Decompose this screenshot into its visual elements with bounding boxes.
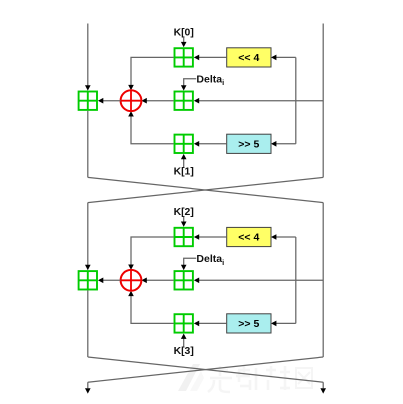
- arrowhead into K[1] adder: [194, 141, 199, 147]
- shift-right box ">> 5" round 1: [227, 134, 271, 153]
- wire v-branch to Delta adder round 1: [198, 100, 323, 102]
- wire Delta_i into adder round 1: [184, 79, 197, 86]
- adder K[2] (boxplus): [175, 228, 193, 246]
- watermark text 先知社区: [208, 366, 312, 392]
- wire K[3] stub: [183, 338, 185, 347]
- wire branch to shift-right round 1: [276, 143, 296, 145]
- svg-text:<< 4: << 4: [238, 232, 259, 244]
- svg-text:Deltai: Deltai: [196, 253, 224, 267]
- wire shift-left to K[0] adder: [198, 56, 226, 58]
- wire branch to shift-right round 2: [276, 322, 296, 324]
- wire v2 input: [87, 203, 89, 266]
- wire K[1] adder to XOR: [131, 116, 174, 144]
- wire K[0] adder to XOR: [131, 57, 174, 85]
- arrowhead into K[3] adder: [194, 321, 199, 327]
- arrowhead into adder left round 1: [85, 85, 91, 90]
- arrowhead into shift-left box round 1: [271, 55, 276, 61]
- wire K[1] stub: [183, 158, 185, 167]
- wire Delta adder to XOR round 1: [146, 100, 174, 102]
- arrowhead Delta_i into adder round 1: [181, 85, 187, 90]
- wire K[2] stub: [183, 217, 185, 223]
- arrowhead K[2] into adder: [181, 222, 187, 227]
- arrowhead K[0] into adder: [181, 42, 187, 47]
- arrowhead into XOR right round 1: [141, 98, 146, 104]
- arrowhead into left adder round 1: [98, 98, 103, 104]
- crossover diagonal R-to-L 1: [88, 177, 323, 202]
- crossover diagonal L-to-R 1: [88, 177, 323, 202]
- arrowhead output right: [320, 388, 326, 393]
- wire branch to shift-left round 1: [276, 56, 296, 58]
- wire K[2] adder to XOR: [131, 237, 174, 265]
- svg-text:Deltai: Deltai: [196, 74, 224, 88]
- wire shift branch vertical round 1: [295, 57, 297, 143]
- arrowhead Delta_i into adder round 2: [181, 265, 187, 270]
- adder left v round 2: [79, 271, 97, 289]
- arrowhead into XOR top round 2: [128, 265, 134, 270]
- wire v-branch to Delta adder round 2: [198, 279, 323, 281]
- adder K[3] (boxplus): [175, 314, 193, 332]
- arrowhead into shift-left box round 2: [271, 234, 276, 240]
- arrowhead into shift-right box round 1: [271, 141, 276, 147]
- wire XOR to left adder round 2: [102, 279, 120, 281]
- crossover diagonal L-to-R 2: [88, 357, 323, 382]
- wire shift-right to K[1] adder: [198, 143, 226, 145]
- arrowhead into XOR bottom round 1: [128, 111, 134, 116]
- wire Delta_i into adder round 2: [184, 258, 197, 265]
- arrowhead into K[0] adder: [194, 55, 199, 61]
- arrowhead into XOR top round 1: [128, 85, 134, 90]
- shift-right box ">> 5" round 2: [227, 314, 271, 333]
- wire K[3] adder to XOR: [131, 295, 174, 323]
- arrowhead into adder left round 2: [85, 265, 91, 270]
- svg-text:K[3]: K[3]: [174, 346, 194, 357]
- crossover diagonal R-to-L 2: [88, 357, 323, 382]
- arrowhead into shift-right box round 2: [271, 321, 276, 327]
- arrowhead into Delta adder round 1: [194, 98, 199, 104]
- wire left adder output down round 1: [87, 111, 89, 178]
- shift-left box "<< 4" round 1: [227, 48, 271, 67]
- watermark logo: [178, 364, 204, 391]
- arrowhead output left: [85, 388, 91, 393]
- adder K[0] (boxplus): [175, 48, 193, 66]
- wire shift-left to K[2] adder: [198, 236, 226, 238]
- adder left v round 1: [79, 92, 97, 110]
- arrowhead into Delta adder round 2: [194, 278, 199, 284]
- wire v1 input: [322, 24, 324, 178]
- wire K[0] stub: [183, 37, 185, 43]
- wire XOR to left adder round 1: [102, 100, 120, 102]
- arrowhead into XOR bottom round 2: [128, 291, 134, 296]
- svg-text:>> 5: >> 5: [238, 318, 259, 330]
- wire output right: [322, 382, 324, 388]
- arrowhead into K[2] adder: [194, 234, 199, 240]
- svg-text:K[2]: K[2]: [174, 207, 194, 218]
- wire output left: [87, 382, 89, 388]
- adder Delta (boxplus) round 1: [175, 92, 193, 110]
- arrowhead K[1] into adder: [181, 154, 187, 159]
- svg-text:K[0]: K[0]: [174, 27, 194, 38]
- arrowhead into left adder round 2: [98, 278, 103, 284]
- adder Delta (boxplus) round 2: [175, 271, 193, 289]
- XOR round 1: [121, 90, 142, 111]
- svg-text:>> 5: >> 5: [238, 138, 259, 150]
- wire left adder output down round 2: [87, 290, 89, 357]
- wire v3 input: [322, 203, 324, 357]
- arrowhead K[3] into adder: [181, 334, 187, 339]
- shift-left box "<< 4" round 2: [227, 227, 271, 246]
- adder K[1] (boxplus): [175, 135, 193, 153]
- svg-text:K[1]: K[1]: [174, 167, 194, 178]
- wire branch to shift-left round 2: [276, 236, 296, 238]
- wire shift-right to K[3] adder: [198, 322, 226, 324]
- svg-text:<< 4: << 4: [238, 52, 259, 64]
- wire Delta adder to XOR round 2: [146, 279, 174, 281]
- XOR round 2: [121, 270, 142, 291]
- wire v0 input: [87, 24, 89, 87]
- wire shift branch vertical round 2: [295, 237, 297, 323]
- arrowhead into XOR right round 2: [141, 278, 146, 284]
